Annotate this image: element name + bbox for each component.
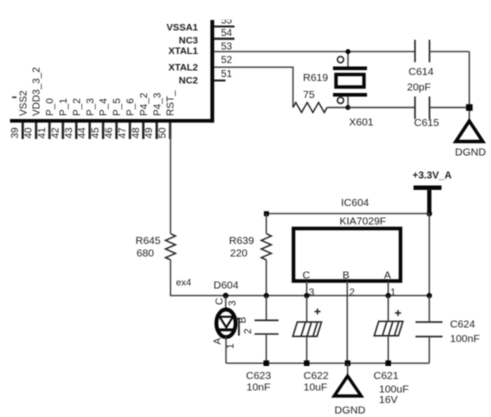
svg-text:R619: R619 [303,72,328,84]
node junction rail-pinA [386,293,391,298]
resistor R619 (horizontal zigzag) [293,103,327,113]
svg-text:R639: R639 [229,235,254,247]
svg-text:16V: 16V [379,394,398,406]
D604 pin labels (rotated) [213,298,255,349]
node +3.3V junction [427,211,433,217]
svg-text:10uF: 10uF [304,382,328,394]
capacitor C623 [265,296,267,321]
power +3.3V_A [413,171,452,214]
MCU right pin stubs 55-51 [214,27,235,81]
svg-text:100nF: 100nF [450,333,480,345]
svg-text:DGND: DGND [335,405,366,417]
MCU bottom pin numbers 39-50 (rotated) [10,127,168,139]
svg-text:VSSA1: VSSA1 [167,22,199,33]
D604 pin B lead [235,319,239,336]
svg-text:1: 1 [226,343,237,349]
svg-text:X601: X601 [349,117,374,129]
svg-text:C: C [303,270,311,282]
MCU bottom pin stubs 39-50 [23,123,170,140]
svg-text:C614: C614 [409,66,434,78]
svg-text:P_0: P_0 [45,98,56,116]
stray dash left of VSS2 [12,97,17,99]
svg-text:NC3: NC3 [179,35,198,46]
svg-text:44: 44 [77,127,88,139]
svg-text:XTAL2: XTAL2 [168,63,198,74]
pin 54 stub redrawn over text zone [214,38,235,40]
svg-text:45: 45 [91,127,102,139]
svg-text:3: 3 [228,300,239,306]
svg-text:+3.3V_A: +3.3V_A [413,171,452,182]
crystal X601 [333,52,367,108]
svg-text:C615: C615 [414,117,439,129]
svg-text:P4_2: P4_2 [139,92,150,116]
svg-text:75: 75 [303,89,315,101]
wire C614 right side down to junction [468,52,470,121]
wire R645 bottom to node rail [171,260,430,296]
node junction gnd-C622 [304,360,310,366]
wire +3.3V down to output rail [428,214,430,296]
svg-text:C624: C624 [450,319,475,331]
svg-text:VDD3_3_2: VDD3_3_2 [32,67,43,116]
svg-text:C: C [214,298,225,305]
svg-text:IC604: IC604 [341,197,369,209]
capacitor C622 (electrolytic) [306,296,308,322]
svg-text:10nF: 10nF [247,382,271,394]
ground DGND (upper right) [456,121,483,142]
svg-text:2: 2 [243,328,254,334]
svg-text:680: 680 [137,248,155,260]
node junction gnd-C623 [264,360,270,366]
node junction rail-C624 [427,293,432,298]
svg-text:1: 1 [390,288,396,299]
node R639 top junction [264,211,269,216]
IC604 pin numbers [309,288,397,299]
wire XTAL2 net (pin52 right then down) [214,67,293,107]
svg-text:P_3: P_3 [85,98,96,116]
svg-text:20pF: 20pF [407,82,431,94]
svg-text:C621: C621 [374,370,399,382]
svg-text:P_2: P_2 [72,98,83,116]
wire R639 bottom to rail [265,260,267,296]
svg-text:VSS2: VSS2 [18,90,29,116]
regulator IC604 KIA7029F box [294,229,401,282]
svg-text:A: A [384,270,391,282]
clip top half of 55 [215,11,237,20]
node junction rail-D604 [223,293,229,299]
svg-text:3: 3 [309,288,315,299]
svg-text:B: B [238,317,249,324]
svg-text:52: 52 [221,55,233,66]
bottom ground rail wire [226,362,429,364]
MCU right pin numbers [221,15,233,80]
svg-text:RST_: RST_ [166,90,177,116]
svg-text:41: 41 [37,127,48,139]
svg-text:D604: D604 [214,280,239,292]
svg-text:51: 51 [221,69,233,80]
svg-text:KIA7029F: KIA7029F [340,216,387,228]
svg-text:B: B [343,270,350,282]
svg-text:40: 40 [24,127,35,139]
MCU bottom pin names (rotated, above bar) [18,67,176,116]
svg-text:50: 50 [158,127,169,139]
svg-text:43: 43 [64,127,75,139]
svg-text:XTAL1: XTAL1 [168,46,198,57]
wire +3.3V rail to R639 top [266,213,429,215]
capacitor C614 [415,40,430,62]
svg-text:P_1: P_1 [59,98,70,116]
svg-text:53: 53 [221,41,233,52]
svg-text:NC2: NC2 [179,76,198,87]
svg-text:ex4: ex4 [176,278,191,289]
resistor R639 (vertical zigzag) [265,214,267,234]
svg-text:R645: R645 [136,235,161,247]
svg-text:48: 48 [131,127,142,139]
node junction at C615 right [466,104,473,111]
node junction rail-pinC [304,293,309,298]
ground DGND (bottom) [347,363,349,376]
svg-text:49: 49 [144,127,155,139]
capacitor C624 [428,296,430,323]
capacitor C615 [415,97,430,120]
svg-text:A: A [213,338,224,345]
wire R619 to crystal bottom [327,107,348,109]
node: crystal bottom junction [346,105,351,110]
svg-text:C623: C623 [246,370,271,382]
svg-text:P_4: P_4 [99,98,110,116]
svg-text:P_5: P_5 [112,98,123,116]
svg-text:46: 46 [104,127,115,139]
svg-text:DGND: DGND [455,147,486,159]
resistor R645 (vertical zigzag) [170,123,172,234]
svg-text:2: 2 [349,288,355,299]
svg-text:P4_3: P4_3 [152,92,163,116]
svg-text:54: 54 [221,28,233,39]
MCU right pin names [167,22,199,86]
svg-text:C622: C622 [304,370,329,382]
node: crystal top junction [346,49,351,54]
node junction gnd-C621 [385,360,391,366]
svg-text:P_6: P_6 [126,98,137,116]
wire XTAL1 net (pin53 to C614) [214,51,415,53]
node junction gnd-DGND [345,360,351,366]
svg-text:220: 220 [230,248,248,260]
capacitor C621 (electrolytic) [374,321,403,335]
svg-text:39: 39 [10,127,21,139]
svg-text:47: 47 [117,127,128,139]
node junction rail-C623 [264,293,269,298]
MCU IC body corner (thick L bars) [10,20,214,123]
svg-text:42: 42 [50,127,61,139]
IC604 pin stubs [307,281,389,363]
